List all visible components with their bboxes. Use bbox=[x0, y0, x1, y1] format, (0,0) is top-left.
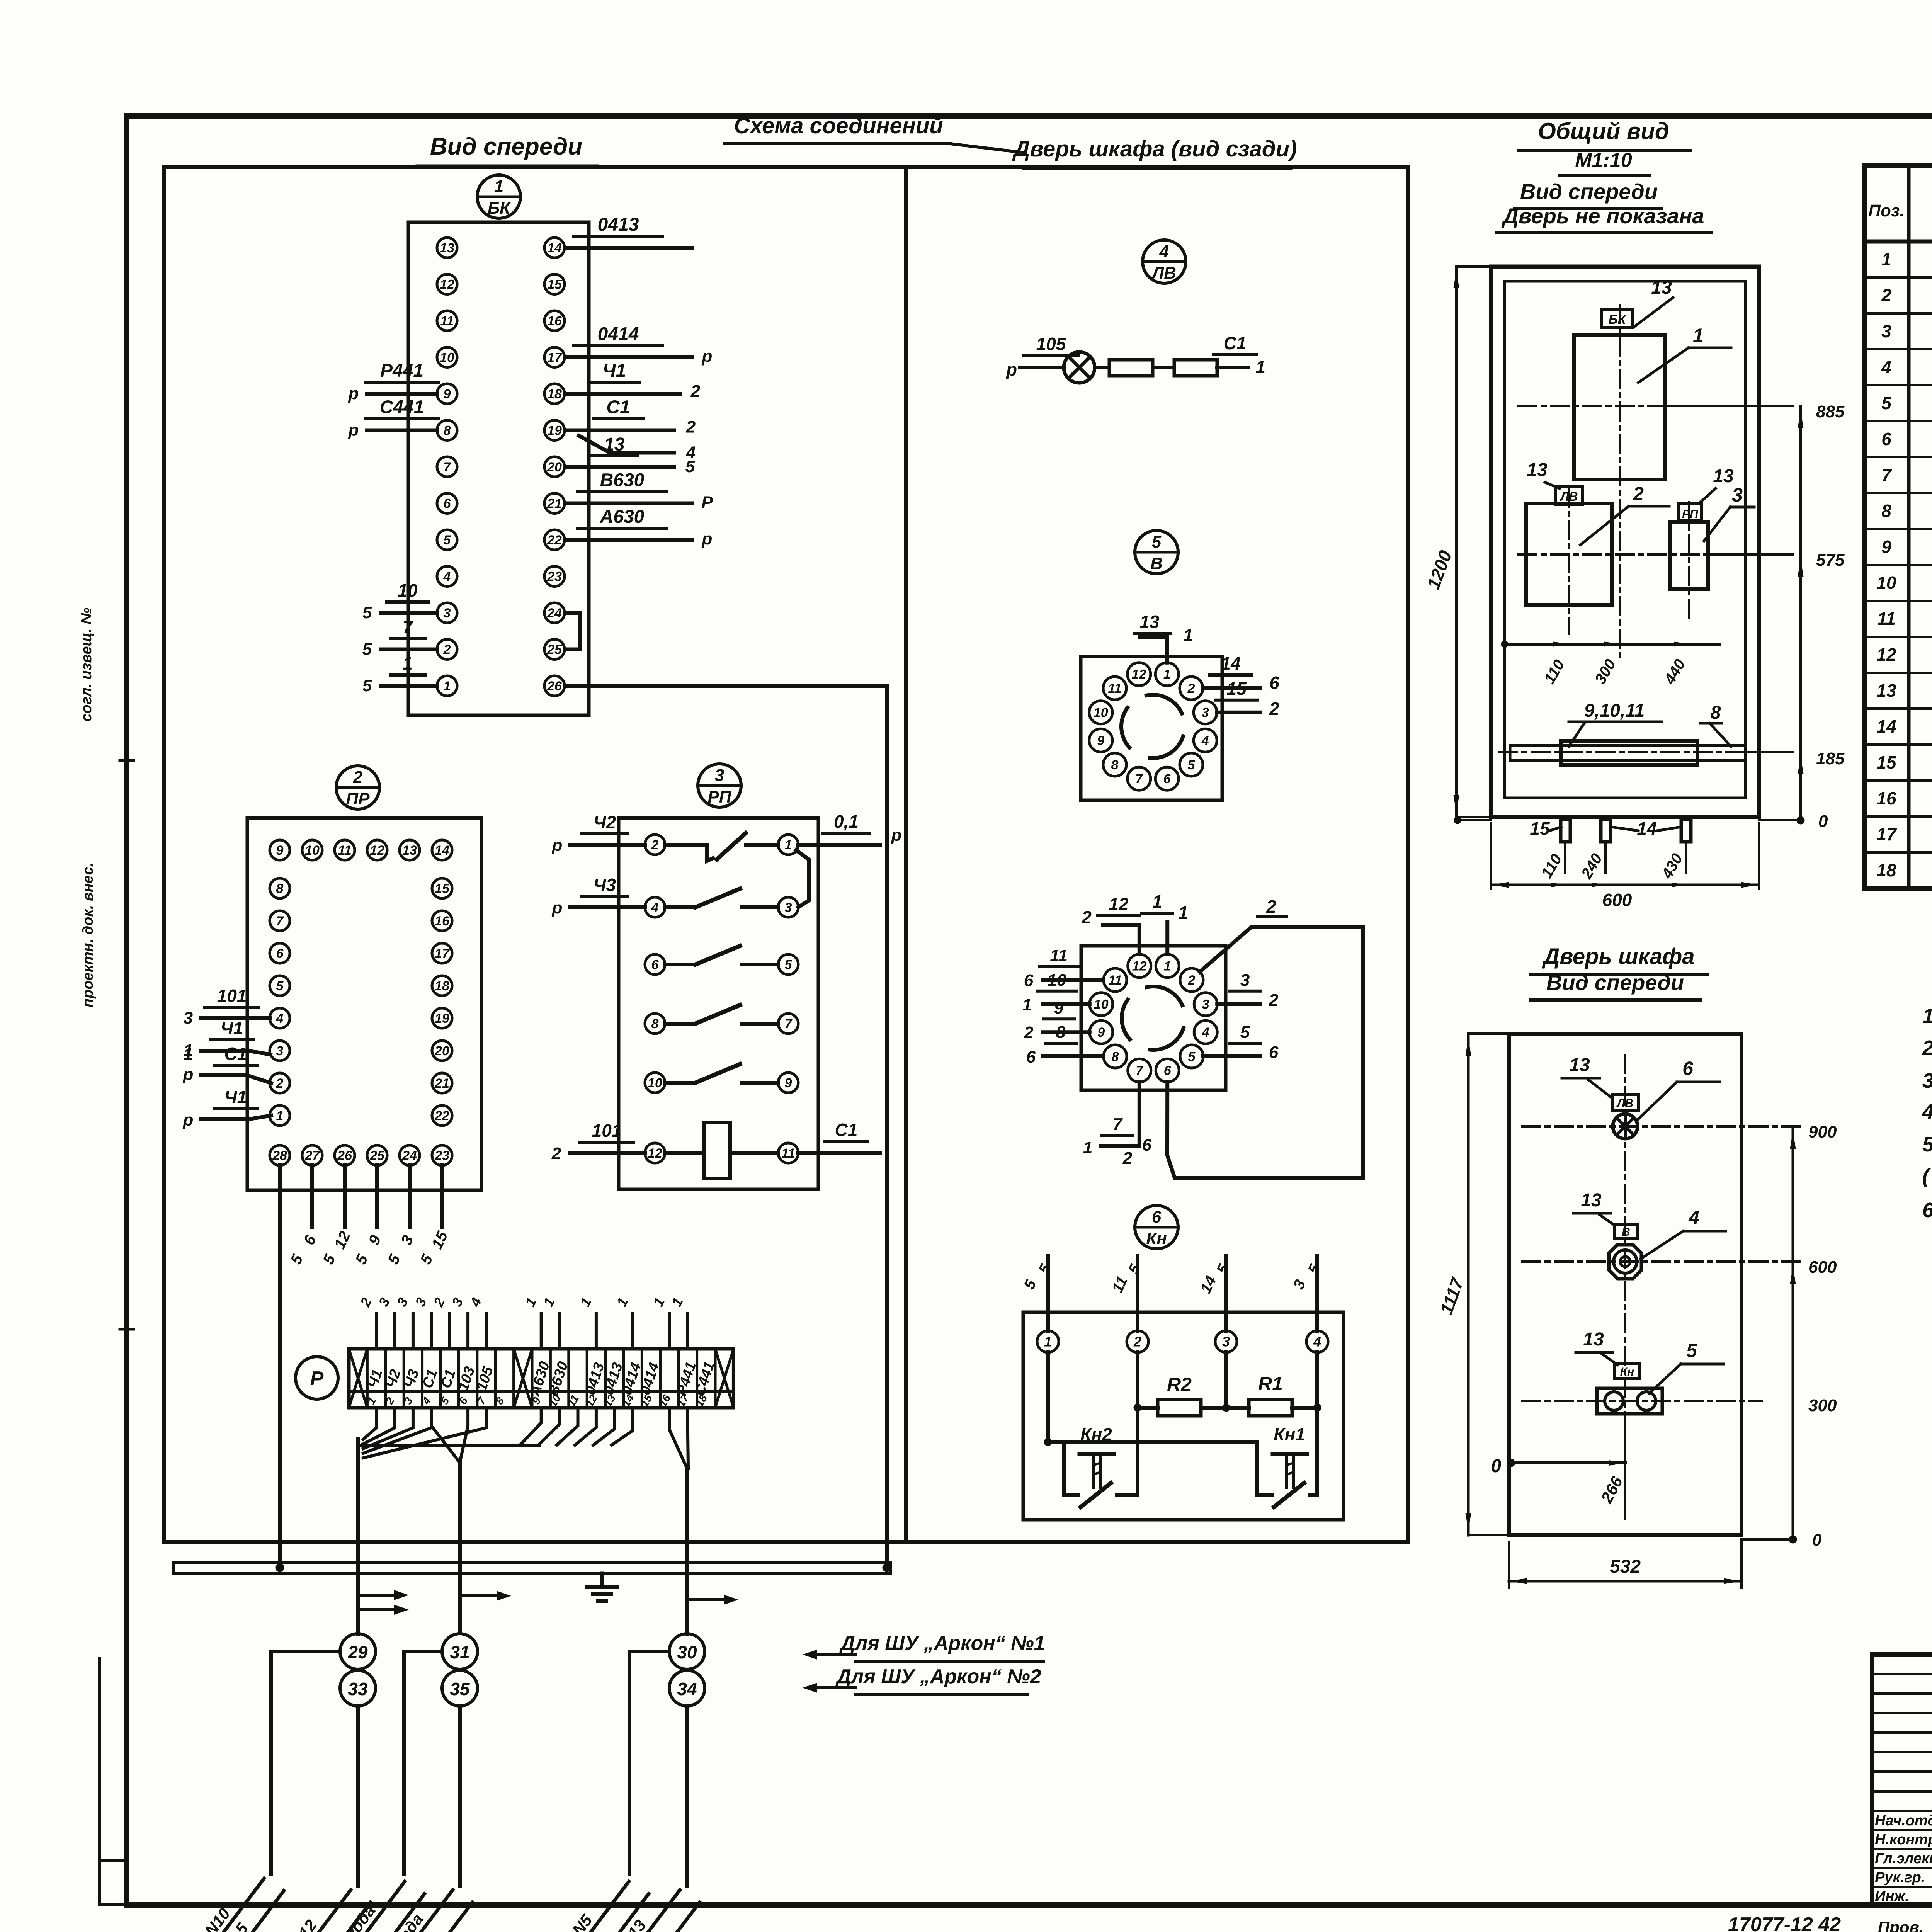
cable circle 33 bbox=[340, 1670, 376, 1706]
wire funnel strip cells 5-6 to cable 31 bbox=[431, 1408, 468, 1633]
svg-text:7: 7 bbox=[785, 1017, 793, 1031]
svg-text:А630: А630 bbox=[600, 507, 645, 527]
svg-text:8: 8 bbox=[276, 881, 284, 896]
pins 1-13 of block БК bbox=[437, 238, 457, 696]
button unit Кн outline bbox=[1023, 1312, 1344, 1520]
cable label РП Камера N13 bbox=[532, 1876, 699, 1932]
terminal strip Р marker bbox=[296, 1357, 338, 1399]
svg-text:11: 11 bbox=[1108, 973, 1122, 988]
pins 1-8 left column of ПР bbox=[270, 878, 290, 1126]
svg-text:10: 10 bbox=[1094, 997, 1109, 1012]
svg-text:6: 6 bbox=[1269, 1043, 1279, 1062]
lamp ЛВ symbol bbox=[1064, 352, 1095, 383]
svg-text:3: 3 bbox=[276, 1044, 284, 1058]
wire 5-5 to Кн terminal 1 bbox=[1021, 1256, 1055, 1331]
svg-text:р: р bbox=[702, 529, 713, 548]
svg-text:33: 33 bbox=[348, 1679, 368, 1699]
wire 0413 to pin 14 bbox=[565, 214, 692, 248]
svg-text:12: 12 bbox=[1109, 894, 1129, 914]
svg-text:Р: Р bbox=[310, 1367, 324, 1390]
svg-text:35: 35 bbox=[450, 1679, 470, 1699]
svg-text:2: 2 bbox=[551, 1144, 561, 1163]
svg-text:9: 9 bbox=[1097, 733, 1104, 748]
svg-text:11: 11 bbox=[781, 1146, 795, 1161]
svg-text:12: 12 bbox=[1132, 667, 1146, 682]
svg-text:11: 11 bbox=[440, 314, 454, 328]
svg-text:4: 4 bbox=[1159, 242, 1169, 261]
svg-text:Кн1: Кн1 bbox=[1274, 1424, 1305, 1444]
svg-text:23: 23 bbox=[547, 569, 562, 584]
svg-text:30: 30 bbox=[677, 1642, 697, 1662]
svg-text:575: 575 bbox=[1816, 551, 1845, 570]
title Вид спереди bbox=[417, 133, 597, 166]
svg-text:2: 2 bbox=[1269, 699, 1279, 719]
svg-text:С441: С441 bbox=[380, 397, 424, 418]
cable circle 29 bbox=[340, 1634, 376, 1669]
svg-text:9: 9 bbox=[444, 387, 451, 401]
svg-text:10: 10 bbox=[305, 843, 320, 858]
cable label РП Камера N5 bbox=[481, 1868, 648, 1932]
notes 1-6 bbox=[1922, 1005, 1932, 1222]
svg-text:2: 2 bbox=[690, 382, 701, 401]
junction dot pin26 wire on bus bbox=[883, 1563, 891, 1572]
wire 7-1 to socket П pin 7 bbox=[1083, 1082, 1139, 1157]
svg-text:532: 532 bbox=[1610, 1556, 1641, 1577]
wire between resistors bbox=[1153, 366, 1174, 369]
wire 13-1 to socket В pin 1 bbox=[1134, 612, 1193, 663]
checker row Пров Суриков bbox=[1878, 1917, 1932, 1932]
tag 13 БК bbox=[1602, 277, 1673, 328]
buttons on door bbox=[1597, 1388, 1662, 1414]
callout 6 lamp bbox=[1638, 1058, 1719, 1120]
svg-text:3: 3 bbox=[1881, 321, 1891, 341]
svg-text:25: 25 bbox=[369, 1148, 385, 1163]
svg-text:600: 600 bbox=[1602, 890, 1632, 910]
svg-text:16: 16 bbox=[547, 314, 562, 328]
svg-text:885: 885 bbox=[1816, 402, 1845, 421]
terminal rail 9,10,11 bbox=[1510, 701, 1745, 765]
svg-text:Нач.отд.: Нач.отд. bbox=[1875, 1813, 1932, 1829]
svg-text:13: 13 bbox=[1581, 1190, 1602, 1211]
wire 5-15 from ПР pin 23 bbox=[417, 1165, 451, 1267]
centerline comp1 vertical bbox=[1619, 305, 1621, 657]
svg-text:0414: 0414 bbox=[598, 324, 639, 345]
centerline 575 horizontal bbox=[1519, 553, 1793, 556]
note Для ШУ Аркон №2 bbox=[803, 1665, 1041, 1695]
svg-text:В: В bbox=[1150, 554, 1163, 573]
callout 3 bbox=[1704, 484, 1754, 541]
svg-text:R1: R1 bbox=[1258, 1373, 1283, 1395]
svg-text:5: 5 bbox=[362, 603, 372, 622]
component 1 командный блок in cabinet bbox=[1574, 335, 1665, 480]
pins 14-26 of block БК bbox=[544, 238, 565, 696]
svg-text:4: 4 bbox=[1688, 1207, 1699, 1228]
svg-text:23: 23 bbox=[434, 1148, 449, 1163]
svg-text:5: 5 bbox=[1686, 1340, 1697, 1361]
svg-text:13: 13 bbox=[1527, 460, 1548, 480]
left margin stamp text bbox=[78, 607, 96, 1007]
svg-text:16: 16 bbox=[435, 914, 450, 929]
svg-text:Кн2: Кн2 bbox=[1080, 1424, 1112, 1444]
svg-text:Дверь шкафа: Дверь шкафа bbox=[1541, 944, 1694, 969]
wire 10-1 to socket П pin 10 bbox=[1022, 971, 1090, 1014]
cable label 2КУ Шкаф Ввода bbox=[305, 1876, 472, 1932]
title Схема соединений bbox=[724, 113, 1024, 153]
svg-text:6: 6 bbox=[1682, 1058, 1694, 1079]
svg-text:2: 2 bbox=[1188, 973, 1196, 988]
svg-text:16: 16 bbox=[1876, 788, 1896, 808]
svg-text:С1: С1 bbox=[835, 1120, 858, 1140]
svg-text:17077-12 42: 17077-12 42 bbox=[1728, 1913, 1841, 1932]
svg-text:7: 7 bbox=[444, 460, 452, 474]
svg-text:2. Глубина шкафа 500 мм.: 2. Глубина шкафа 500 мм. bbox=[1922, 1036, 1932, 1060]
mounting depth line with dims 110 300 440 bbox=[1501, 641, 1719, 687]
svg-text:р: р bbox=[702, 347, 713, 366]
svg-text:10: 10 bbox=[648, 1076, 662, 1090]
cable circle 34 bbox=[669, 1670, 705, 1706]
svg-text:5.По данному чертежу изгото: 5.По данному чертежу изготовить два шкаф… bbox=[1922, 1133, 1932, 1156]
block 2 outline bbox=[247, 818, 481, 1190]
wire bundle strip cells to cable 29 bbox=[358, 1408, 486, 1634]
door centerline buttons bbox=[1522, 1400, 1762, 1402]
svg-text:Кн: Кн bbox=[1146, 1229, 1167, 1248]
marker circle 3/РП bbox=[698, 764, 741, 807]
wire 15-2 to socket В pin 3 bbox=[1215, 679, 1279, 719]
wire lamp to resistor bbox=[1095, 366, 1109, 369]
svg-text:5: 5 bbox=[1188, 1049, 1196, 1064]
svg-text:3: 3 bbox=[1202, 706, 1209, 720]
svg-text:3: 3 bbox=[1732, 484, 1743, 506]
svg-text:0,1: 0,1 bbox=[834, 811, 859, 832]
wire strip cells 17-18 to cable 30 bbox=[670, 1408, 689, 1634]
ground symbol bbox=[587, 1573, 617, 1601]
svg-text:31: 31 bbox=[450, 1642, 469, 1662]
door centerline switch bbox=[1522, 1260, 1801, 1263]
svg-text:0: 0 bbox=[1818, 812, 1828, 831]
svg-text:согл. извещ. №: согл. извещ. № bbox=[78, 607, 95, 721]
svg-text:11: 11 bbox=[1108, 681, 1121, 696]
svg-text:7: 7 bbox=[1881, 465, 1892, 485]
svg-text:2: 2 bbox=[1133, 1334, 1141, 1350]
svg-text:4: 4 bbox=[1881, 357, 1891, 377]
svg-text:1: 1 bbox=[1178, 903, 1188, 923]
callout 8 rail bbox=[1700, 702, 1731, 747]
callout 1 bbox=[1638, 325, 1731, 383]
svg-text:РП: РП bbox=[708, 787, 732, 806]
svg-text:ЛВ: ЛВ bbox=[1560, 490, 1578, 503]
svg-text:18: 18 bbox=[1876, 860, 1896, 880]
svg-text:0: 0 bbox=[1491, 1456, 1502, 1476]
svg-text:1: 1 bbox=[1083, 1138, 1092, 1157]
centerline rail horizontal bbox=[1499, 751, 1793, 753]
svg-text:5: 5 bbox=[444, 533, 451, 548]
svg-text:2: 2 bbox=[1024, 1023, 1034, 1042]
svg-text:24: 24 bbox=[402, 1148, 417, 1163]
signal lamp ЛВ circuit bbox=[1005, 333, 1265, 383]
svg-text:1: 1 bbox=[1022, 995, 1032, 1014]
cable tails 31/35 bbox=[404, 1651, 460, 1886]
flow arrow cable 31 bbox=[464, 1591, 511, 1601]
svg-text:3.Принципиальную схему см. Э: 3.Принципиальную схему см. Э-20. bbox=[1922, 1069, 1932, 1092]
svg-text:р: р bbox=[348, 421, 359, 440]
svg-text:R2: R2 bbox=[1167, 1374, 1192, 1395]
marker circle 5/В bbox=[1135, 531, 1178, 574]
cable circle 31 bbox=[442, 1634, 478, 1669]
svg-text:1.Шкафы предназначены для и: 1.Шкафы предназначены для изготовления в… bbox=[1922, 1005, 1932, 1028]
svg-text:11: 11 bbox=[338, 843, 351, 858]
rotary switch on door bbox=[1609, 1245, 1641, 1279]
terminal strip Р body bbox=[349, 1349, 733, 1408]
Кн terminals 1-4 bbox=[1037, 1331, 1328, 1352]
svg-text:9: 9 bbox=[785, 1076, 792, 1090]
wire 101-2 to РП pin 12 bbox=[551, 1121, 645, 1163]
svg-text:18: 18 bbox=[435, 979, 449, 993]
terminal strip Р incoming stubs bbox=[357, 1295, 688, 1349]
block 1 outline bbox=[408, 222, 589, 715]
wire Кн terminal 4 down bbox=[1313, 1352, 1321, 1412]
pins 9-14 top row of ПР bbox=[270, 840, 452, 860]
cabinet base ticks bbox=[1454, 817, 1491, 824]
svg-text:1: 1 bbox=[494, 177, 503, 196]
svg-text:проектн. док. внес.: проектн. док. внес. bbox=[80, 863, 96, 1007]
wire 13-5 to pin 20 bbox=[565, 434, 695, 476]
wire р-105 to lamp bbox=[1005, 334, 1078, 379]
wire from ПР pin 28 down to earth bus bbox=[278, 1165, 282, 1568]
wire Ч2-р to РП pin 2 bbox=[552, 812, 645, 855]
svg-text:2: 2 bbox=[1633, 483, 1644, 505]
svg-text:2: 2 bbox=[353, 768, 363, 787]
wire 1-1 to socket П pin 1 bbox=[1142, 891, 1188, 954]
wire bus terminal1 across bbox=[1044, 1438, 1257, 1446]
resistor (ballast) 2 bbox=[1174, 360, 1217, 376]
svg-text:Схема соединений: Схема соединений bbox=[734, 113, 943, 138]
svg-text:ЛВ: ЛВ bbox=[1151, 264, 1176, 282]
centerline 885 horizontal bbox=[1519, 405, 1793, 407]
svg-text:р: р bbox=[348, 384, 359, 403]
svg-text:2: 2 bbox=[276, 1076, 284, 1091]
wire branch 4 from pin 19 bbox=[579, 436, 696, 462]
title Дверь шкафа / Вид спереди bbox=[1531, 944, 1708, 1000]
svg-text:8: 8 bbox=[444, 423, 451, 438]
wire 11-6 to socket П pin 11 bbox=[1024, 946, 1104, 990]
wire 5-3 from ПР pin 24 bbox=[385, 1165, 417, 1267]
svg-text:2: 2 bbox=[1881, 285, 1891, 305]
wire Кн terminal 3 down bbox=[1222, 1352, 1230, 1412]
adapter block U2 2/ПР bbox=[247, 766, 481, 1190]
tag 13 Кн on door bbox=[1576, 1329, 1640, 1379]
svg-text:1: 1 bbox=[1044, 1334, 1052, 1350]
wire 0,1-р from РП pin 1 bbox=[798, 811, 901, 845]
svg-text:11: 11 bbox=[1877, 609, 1896, 629]
terminal strip Р cell labels bbox=[364, 1360, 718, 1409]
svg-text:20: 20 bbox=[547, 460, 562, 474]
svg-text:1: 1 bbox=[1164, 959, 1171, 974]
svg-text:8: 8 bbox=[1881, 501, 1891, 521]
flow arrows cable 29 bbox=[361, 1590, 409, 1615]
svg-text:РП: РП bbox=[1682, 508, 1699, 520]
svg-text:34: 34 bbox=[677, 1679, 697, 1699]
svg-text:101: 101 bbox=[592, 1121, 622, 1141]
svg-text:5: 5 bbox=[1881, 393, 1892, 413]
title Дверь шкафа (вид сзади) bbox=[1012, 136, 1297, 168]
svg-text:1: 1 bbox=[1152, 891, 1162, 912]
svg-text:В: В bbox=[1622, 1226, 1630, 1238]
svg-text:15: 15 bbox=[1226, 679, 1247, 699]
svg-text:6.Спецификация составлена дл: 6.Спецификация составлена для одного шка… bbox=[1922, 1199, 1932, 1222]
svg-text:Вид спереди: Вид спереди bbox=[1546, 970, 1684, 995]
svg-text:5: 5 bbox=[1240, 1023, 1250, 1042]
svg-text:14: 14 bbox=[1637, 818, 1656, 838]
svg-text:12: 12 bbox=[440, 277, 454, 292]
svg-text:4: 4 bbox=[1313, 1334, 1321, 1350]
svg-text:1: 1 bbox=[1255, 357, 1265, 377]
dimension chain door right 900 600 300 0 bbox=[1742, 1122, 1837, 1549]
svg-text:13: 13 bbox=[1569, 1055, 1590, 1075]
svg-text:4: 4 bbox=[1202, 1025, 1209, 1040]
relay РП outline bbox=[619, 818, 818, 1189]
pins 15-22 right column of ПР bbox=[432, 878, 452, 1126]
cable circle 35 bbox=[442, 1670, 478, 1706]
wire С1-2 to pin 19 bbox=[565, 397, 696, 437]
wire 7-5 to pin 2 bbox=[362, 617, 437, 659]
svg-text:2: 2 bbox=[1266, 896, 1276, 917]
svg-text:1: 1 bbox=[184, 1045, 193, 1064]
svg-text:4: 4 bbox=[1201, 733, 1209, 748]
svg-text:Для ШУ „Аркон“ №1: Для ШУ „Аркон“ №1 bbox=[839, 1632, 1045, 1655]
tag 13 В on door bbox=[1573, 1190, 1638, 1239]
svg-text:6: 6 bbox=[1024, 971, 1034, 990]
svg-text:13: 13 bbox=[1583, 1329, 1604, 1350]
svg-text:12: 12 bbox=[370, 843, 384, 858]
wire А630-р to pin 22 bbox=[565, 507, 712, 548]
archive number 17077-12 42 bbox=[1728, 1913, 1841, 1932]
svg-text:8: 8 bbox=[651, 1017, 659, 1031]
svg-text:5: 5 bbox=[362, 676, 372, 695]
svg-text:БК: БК bbox=[488, 199, 511, 218]
callout 5 buttons bbox=[1649, 1340, 1723, 1393]
svg-text:10: 10 bbox=[1094, 706, 1108, 720]
svg-text:13: 13 bbox=[604, 434, 625, 455]
svg-text:5: 5 bbox=[276, 979, 284, 993]
svg-text:4: 4 bbox=[276, 1011, 284, 1026]
specification table bbox=[1864, 134, 1932, 888]
svg-text:7: 7 bbox=[276, 914, 284, 929]
svg-text:17: 17 bbox=[435, 946, 450, 961]
wire bundle strip right cells gather bbox=[358, 1408, 633, 1445]
svg-text:БК: БК bbox=[1609, 312, 1627, 327]
push-button Кн1 bbox=[1257, 1414, 1317, 1507]
relay coil РП pins 12-11 bbox=[645, 1122, 798, 1179]
svg-text:13: 13 bbox=[1876, 680, 1896, 701]
note Для ШУ Аркон №1 bbox=[803, 1632, 1045, 1662]
wire 14-5 to Кн terminal 3 bbox=[1197, 1256, 1233, 1331]
svg-text:6: 6 bbox=[276, 946, 284, 961]
tag 13 ЛВ on door bbox=[1562, 1055, 1638, 1110]
svg-text:М1:10: М1:10 bbox=[1575, 149, 1632, 172]
svg-text:900: 900 bbox=[1808, 1122, 1837, 1141]
svg-text:Поз.: Поз. bbox=[1868, 201, 1904, 220]
svg-text:185: 185 bbox=[1816, 749, 1845, 768]
svg-text:14: 14 bbox=[547, 241, 562, 255]
svg-text:0413: 0413 bbox=[598, 214, 639, 235]
svg-text:24: 24 bbox=[547, 606, 562, 621]
svg-text:4: 4 bbox=[651, 900, 659, 915]
svg-text:С1: С1 bbox=[606, 397, 630, 418]
wire Ч3-р to РП pin 4 bbox=[552, 875, 645, 917]
resistor R2 bbox=[1138, 1374, 1201, 1416]
cable circle 30 bbox=[669, 1634, 705, 1669]
svg-text:6: 6 bbox=[651, 957, 659, 972]
svg-text:р: р bbox=[183, 1065, 194, 1084]
svg-text:2: 2 bbox=[1269, 991, 1279, 1010]
wire Кн terminal 1 down bbox=[1046, 1352, 1050, 1442]
svg-text:Дверь не показана: Дверь не показана bbox=[1502, 204, 1704, 228]
svg-text:р: р bbox=[1005, 359, 1017, 379]
wire 3-2 to socket П pin 3 bbox=[1217, 971, 1279, 1010]
svg-text:5: 5 bbox=[685, 457, 695, 476]
svg-text:6: 6 bbox=[1269, 673, 1279, 693]
svg-text:6: 6 bbox=[1163, 772, 1171, 786]
svg-text:7: 7 bbox=[403, 617, 413, 637]
svg-text:Ч1: Ч1 bbox=[224, 1087, 247, 1107]
cable label РП Камера N12 bbox=[203, 1876, 370, 1932]
svg-text:2: 2 bbox=[443, 642, 451, 657]
marker circle 4/ЛВ bbox=[1143, 240, 1186, 283]
svg-text:3: 3 bbox=[1240, 971, 1250, 990]
svg-text:18: 18 bbox=[547, 387, 562, 401]
svg-text:(N1 и N2).: (N1 и N2). bbox=[1922, 1165, 1932, 1188]
svg-text:Общий вид: Общий вид bbox=[1538, 118, 1669, 144]
wire 14-6 to socket В pin 2 bbox=[1203, 653, 1279, 693]
svg-text:22: 22 bbox=[434, 1109, 449, 1123]
svg-text:10: 10 bbox=[1876, 573, 1896, 593]
svg-text:12: 12 bbox=[1876, 645, 1896, 665]
svg-text:Пров.: Пров. bbox=[1878, 1918, 1924, 1932]
svg-text:7: 7 bbox=[1113, 1115, 1123, 1134]
svg-text:13: 13 bbox=[1713, 466, 1734, 486]
wire Р441-р to pin 9 bbox=[348, 361, 439, 403]
svg-text:17: 17 bbox=[547, 350, 563, 365]
svg-text:26: 26 bbox=[547, 679, 562, 694]
svg-text:300: 300 bbox=[1808, 1396, 1837, 1415]
svg-text:р: р bbox=[183, 1111, 194, 1129]
svg-text:8: 8 bbox=[1112, 1049, 1119, 1064]
svg-text:4.Кабельный журнал см. Э-38.: 4.Кабельный журнал см. Э-38. bbox=[1922, 1100, 1932, 1123]
svg-text:С1: С1 bbox=[1224, 333, 1247, 353]
svg-text:р: р bbox=[891, 826, 902, 845]
wire Ч1-1 to ПР pin 3 bbox=[184, 1018, 270, 1060]
wire 5-6 to socket П pin 5 bbox=[1203, 1023, 1279, 1062]
wire bracket РП pin 1 to pin 3 bbox=[796, 850, 809, 907]
wire С1 from РП pin 11 bbox=[798, 1120, 880, 1153]
tag 13 РП bbox=[1679, 466, 1734, 521]
wire 0414-р to pin 17 bbox=[565, 324, 712, 366]
svg-text:10: 10 bbox=[440, 350, 454, 365]
svg-text:С1: С1 bbox=[224, 1044, 247, 1064]
door outline bbox=[1509, 1034, 1742, 1535]
svg-text:9: 9 bbox=[276, 843, 284, 858]
svg-text:6: 6 bbox=[1881, 429, 1891, 449]
svg-text:29: 29 bbox=[347, 1642, 368, 1662]
component 3 реле in cabinet bbox=[1670, 522, 1708, 589]
wire 2 loop socket П pin 2 to pin 6 bbox=[1122, 896, 1363, 1178]
svg-text:Дверь шкафа (вид сзади): Дверь шкафа (вид сзади) bbox=[1012, 136, 1297, 162]
svg-text:6: 6 bbox=[444, 496, 451, 511]
svg-text:21: 21 bbox=[547, 496, 562, 511]
svg-text:ЛВ: ЛВ bbox=[1616, 1097, 1633, 1110]
svg-text:13: 13 bbox=[440, 241, 454, 255]
svg-text:28: 28 bbox=[272, 1148, 287, 1163]
